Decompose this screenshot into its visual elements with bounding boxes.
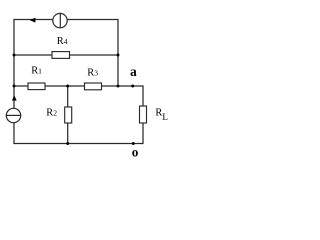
current source Is2 (left, circle with horizontal bar): [6, 108, 21, 122]
wire: R4 row left segment: [14, 54, 52, 56]
wire: RL branch lower vertical: [142, 123, 144, 144]
svg-text:R4: R4: [57, 36, 68, 47]
resistor RL (body, vertical): [140, 106, 147, 123]
wire: top horizontal left segment (to current source circle): [13, 19, 53, 21]
wire: middle row segment R3 to corner a: [102, 85, 144, 87]
junction: left wire at R4 row: [13, 54, 16, 57]
svg-text:a: a: [130, 64, 137, 79]
junction: right vertical at middle row: [117, 85, 120, 88]
junction: left wire at middle row: [13, 85, 16, 88]
svg-text:RL: RL: [155, 108, 167, 122]
wire: R2 branch lower vertical: [67, 123, 69, 144]
arrow: current direction on top wire (pointing left): [30, 18, 36, 23]
svg-text:R2: R2: [46, 108, 57, 119]
node a terminal dot: [131, 85, 134, 88]
junction: right vertical at R4 row: [117, 54, 120, 57]
svg-text:R1: R1: [31, 66, 42, 77]
junction: R2 top: [66, 85, 69, 88]
current source Is1 (top, circle with vertical bar): [53, 13, 67, 29]
wire: RL branch upper vertical: [142, 85, 144, 106]
resistor R4 (body): [52, 52, 70, 59]
junction: R2 bottom: [66, 142, 69, 145]
wire: R2 branch upper vertical: [67, 86, 69, 107]
wire: middle row segment R1 to R3: [45, 85, 85, 87]
wire: middle row left segment (left wire to R1): [14, 85, 28, 87]
wire: left vertical (top section, x=14 from top wire down to current source): [13, 20, 15, 109]
wire: top horizontal right segment (circle to top-right corner): [67, 19, 118, 21]
resistor R1 (body): [28, 83, 45, 90]
wire: R4 row right segment: [70, 54, 119, 56]
resistor R3 (body): [85, 83, 102, 90]
wire: right upper vertical (x=118 from top wire to node row): [117, 20, 119, 87]
wire: bottom horizontal: [13, 143, 143, 145]
resistor R2 (body, vertical): [65, 107, 72, 123]
wire: left vertical (bottom section, from current source to bottom wire): [13, 123, 15, 144]
svg-text:R3: R3: [87, 68, 98, 79]
svg-text:o: o: [132, 145, 139, 160]
node o terminal dot: [132, 142, 135, 145]
arrow: current direction on left wire (pointing up): [12, 95, 17, 100]
